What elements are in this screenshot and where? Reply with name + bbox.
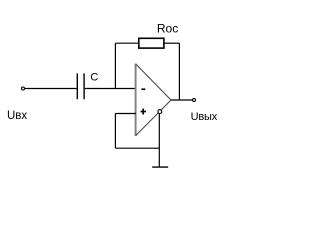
wire capacitor to inverting input bbox=[85, 88, 136, 90]
op-amp U1 bbox=[136, 64, 171, 137]
wire non-inverting loop left vertical bbox=[114, 114, 116, 149]
non-inverting input marker + bbox=[141, 109, 146, 115]
resistor Roc bbox=[139, 38, 164, 48]
svg-text:Uвых: Uвых bbox=[191, 111, 218, 123]
svg-text:Roc: Roc bbox=[157, 22, 178, 36]
wire feedback left vertical bbox=[114, 43, 116, 88]
wire feedback top left horizontal bbox=[115, 42, 138, 44]
input terminal (left) bbox=[22, 87, 25, 90]
inverting input marker - bbox=[142, 88, 146, 90]
terminal circle on op-amp lower edge bbox=[158, 110, 162, 114]
wire op-amp output bbox=[171, 99, 192, 101]
wire non-inverting loop bottom horizontal bbox=[115, 147, 159, 149]
svg-text:Uвх: Uвх bbox=[7, 110, 27, 122]
wire terminal circle to ground bbox=[158, 114, 160, 167]
ground bbox=[152, 166, 168, 168]
output terminal (right) bbox=[193, 99, 196, 102]
wire non-inverting input horizontal bbox=[115, 113, 136, 115]
wire feedback right vertical bbox=[178, 43, 180, 100]
wire input terminal to capacitor bbox=[25, 88, 77, 90]
svg-text:C: C bbox=[90, 72, 98, 84]
capacitor C bbox=[77, 73, 84, 99]
wire feedback top right horizontal bbox=[164, 42, 180, 44]
